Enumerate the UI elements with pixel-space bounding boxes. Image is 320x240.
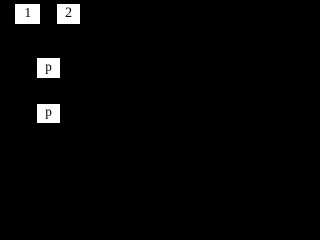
arrowhead 1->p	[42, 53, 46, 58]
node 1	[15, 4, 40, 25]
edge p->p	[47, 78, 49, 99]
edge 1->p	[28, 24, 44, 54]
node p (middle)	[37, 58, 61, 77]
arrowhead 2->p	[51, 53, 55, 58]
node p (bottom)	[37, 104, 61, 123]
node 2	[57, 4, 81, 25]
edge 2->p	[53, 24, 69, 54]
graph edges (opaque black ink of the source graph; drawn over the black background)	[0, 0, 98, 125]
arrowhead p->p	[47, 99, 50, 104]
